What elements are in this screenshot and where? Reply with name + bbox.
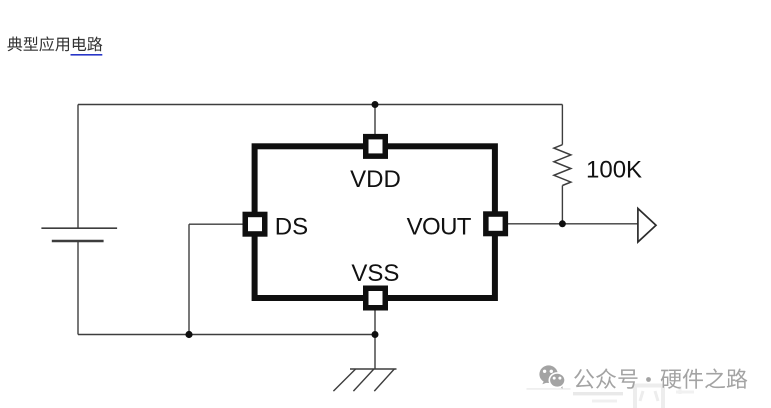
- watermark text 公众号·硬件之路: [574, 368, 747, 388]
- wire VOUT output: [508, 223, 638, 225]
- svg-text:VSS: VSS: [351, 260, 399, 287]
- wire top rail: [78, 104, 562, 106]
- node junction resistor / VOUT: [559, 220, 566, 227]
- ground: [333, 369, 396, 391]
- wire battery positive lead: [77, 105, 79, 229]
- svg-text:DS: DS: [275, 214, 308, 241]
- node junction top rail / VDD: [372, 101, 379, 108]
- svg-text:VDD: VDD: [350, 166, 401, 193]
- wechat logo: [539, 365, 565, 389]
- battery BT1: [41, 228, 117, 241]
- op-amp / IC U1 body: [255, 146, 495, 298]
- wire VSS pin to ground: [374, 310, 376, 369]
- title 典型应用电路: [7, 36, 102, 51]
- wire resistor to VOUT node: [561, 186, 563, 224]
- title underline (link): [71, 54, 103, 56]
- output buffer triangle: [638, 209, 656, 243]
- node junction bottom rail / DS: [185, 331, 192, 338]
- node junction bottom rail / VSS: [372, 331, 379, 338]
- wire bottom rail: [78, 334, 375, 336]
- wire DS branch vertical: [188, 224, 190, 334]
- svg-text:100K: 100K: [586, 157, 642, 184]
- svg-text:VOUT: VOUT: [407, 214, 472, 241]
- resistor R1: [554, 145, 571, 186]
- pin VDD: [366, 137, 386, 157]
- wire battery negative lead: [77, 241, 79, 335]
- pin VOUT: [486, 214, 506, 234]
- wire VDD pin to top rail: [374, 105, 376, 137]
- wire right rail to resistor: [561, 105, 563, 145]
- pin VSS: [366, 288, 386, 308]
- watermark ghost marks: [527, 386, 695, 408]
- wire DS branch horizontal: [189, 223, 243, 225]
- pin DS: [245, 214, 265, 234]
